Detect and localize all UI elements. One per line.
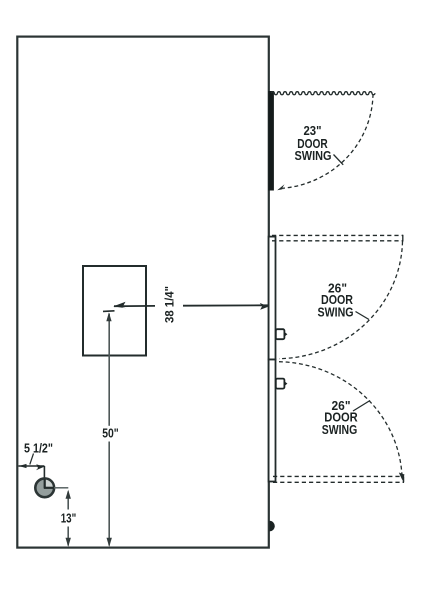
svg-text:5 1/2": 5 1/2": [24, 441, 53, 455]
svg-text:SWING: SWING: [295, 149, 332, 163]
svg-text:50": 50": [102, 426, 119, 440]
svg-text:SWING: SWING: [322, 423, 358, 437]
svg-text:38 1/4": 38 1/4": [163, 286, 177, 323]
svg-text:SWING: SWING: [318, 306, 354, 320]
svg-text:13": 13": [61, 511, 77, 525]
